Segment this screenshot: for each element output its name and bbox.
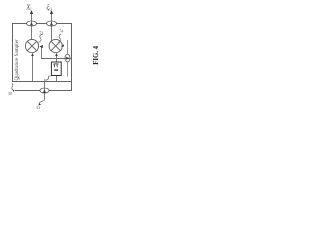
wire mixer1 LO riser — [32, 55, 34, 82]
node bridge ellipse output Q crossover — [47, 21, 57, 26]
fraction bar pi/2 — [54, 69, 58, 70]
arrow RF bridge right — [66, 57, 69, 60]
svg-text:Quadrature Sampler: Quadrature Sampler — [14, 39, 20, 80]
arrow into mixer2 right — [61, 44, 64, 47]
node bridge ellipse RF x67 crossover — [65, 54, 70, 62]
svg-text:52: 52 — [36, 106, 40, 110]
mixer U2 X — [51, 41, 60, 50]
squiggle leader mixer1 — [39, 34, 43, 43]
wire LO vertical through bridge — [44, 81, 46, 101]
arrow LO bridge up — [43, 89, 46, 93]
wire input label squiggle leader — [12, 83, 13, 90]
mixer U2 circle — [49, 39, 62, 52]
wire RF horizontal through bridge — [41, 47, 72, 59]
wire mixer2 LO riser — [56, 55, 58, 63]
arrow into mixer2 LO — [55, 53, 58, 56]
squiggle leader pi/2 — [47, 76, 52, 80]
wire pi/2 to rail — [56, 76, 58, 82]
wire x67 LO vertical — [67, 40, 69, 77]
mixer U1 circle — [25, 39, 38, 52]
svg-text:50: 50 — [8, 92, 12, 96]
arrow output Q head — [50, 10, 53, 14]
wire input bottom — [15, 90, 72, 92]
quadrature sampler box — [13, 24, 72, 82]
arrow bridge Q up — [50, 22, 53, 25]
svg-text:74: 74 — [59, 29, 63, 33]
mixer U1 X — [27, 41, 36, 50]
phase shifter pi/2 box — [51, 62, 61, 76]
node bridge ellipse output I crossover — [27, 21, 37, 26]
svg-text:Q: Q — [49, 8, 52, 12]
wire right rail down to input wire — [71, 82, 73, 92]
svg-text:72: 72 — [39, 31, 43, 35]
node bridge ellipse input LO crossover — [40, 88, 49, 93]
svg-text:62: 62 — [44, 78, 48, 82]
arrow output I head — [30, 10, 33, 14]
arrow into mixer1 right — [39, 45, 42, 48]
label pi symbol — [53, 64, 58, 67]
wire output Q — [51, 11, 53, 41]
arrow bridge I up — [30, 22, 33, 25]
arrow input leader head — [13, 89, 15, 92]
squiggle leader mixer2 — [58, 34, 61, 42]
arrow LO label leader tip — [38, 103, 41, 105]
arrow into mixer1 LO — [31, 53, 34, 56]
wire output I — [31, 11, 33, 40]
svg-text:FIG. 4: FIG. 4 — [93, 45, 100, 64]
wire LO label squiggle leader — [39, 100, 44, 105]
